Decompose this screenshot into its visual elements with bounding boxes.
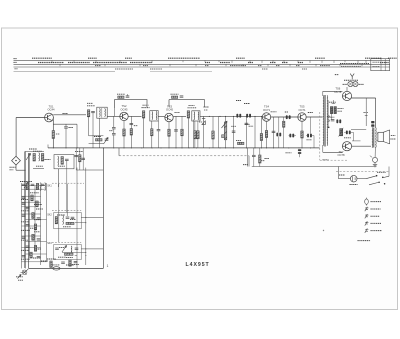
resistor R21 emitter [265,131,267,138]
wire to TS6 base [323,90,343,92]
dial lamp LA2 [353,81,358,86]
resistor R16 [181,129,183,136]
label bypass column [75,150,83,152]
capacitor ladder [22,215,26,216]
label above C16 [244,103,250,105]
capacitor C17 [252,155,256,156]
label R17 value b [204,109,208,111]
battery earth drop [338,167,340,179]
signal level 4.5mV [63,113,68,115]
wire down to output transformer [375,98,377,128]
switch rung wire [22,235,41,237]
IFT3 lead down [193,120,195,148]
resistor R18 load [212,131,214,139]
pot track wire [225,116,227,147]
capacitor box row3 b [75,248,79,249]
wire C3 down [65,128,67,148]
ladder label [33,257,41,259]
oscillator coil S3 [57,156,60,165]
wire osc coupling [53,123,77,125]
bottom row labels b [58,256,66,258]
wire vertical x58.8 [58,184,60,242]
resistor R23 bias [330,107,332,114]
aerial coil row1 [39,183,42,191]
legend row 3 symbol [365,214,369,218]
transistor TS5 OC71 [298,113,306,121]
ladder label [21,229,30,231]
capacitor C9 [112,134,116,135]
box row2 labels b [70,219,76,221]
capacitor bypass a [74,155,78,156]
capacitor C19 [272,131,276,132]
loudspeaker label row1 [391,134,396,136]
legend row 2 symbol [365,207,369,211]
wire vertical x46.5 [46,183,48,262]
resistor R27 bias [283,121,285,127]
wire C11 down [158,131,160,148]
wire TS1 collector to IFT1 [53,114,86,116]
capacitor ladder [37,218,41,219]
label C21 [285,111,289,113]
wire x247 below rail [246,148,248,167]
wire bracket left down [114,108,116,116]
resistor R13 [151,129,153,136]
electrolytic C25 [336,119,341,123]
resistor R12 [142,111,144,118]
battery dashed boundary [336,171,390,173]
IFT2 can outline [150,111,158,121]
resistor ladder [30,252,32,258]
driver transformer secondary [326,96,329,146]
wire diode down [203,125,205,148]
labels above IFT3 [188,107,197,109]
fuse label [53,264,60,266]
wire below C18 [299,154,301,157]
svg-text:OC78: OC78 [337,153,345,157]
capacitor box row3 [55,248,59,249]
wire to C3 [65,124,67,126]
wire C17 up [253,148,255,155]
resistor bottom a [50,261,52,267]
wire x213 down [212,116,214,147]
wire filter b [197,121,199,148]
supply feed bracket stage 2 [115,100,147,108]
label near padder [94,136,101,138]
stray speck [323,230,324,231]
on/off switch SK4 [366,176,376,179]
resistor row1 b [36,183,38,189]
label C23 [307,139,312,141]
output transformer secondary [374,128,377,148]
row1 labels b [30,192,39,194]
wire R12 down [143,118,145,148]
switch rung wire [22,195,41,197]
switch rung wire [26,253,47,255]
electrolytic C27 above output transformer [371,121,374,127]
resistor ladder [32,213,34,219]
loudspeaker frame [378,132,383,141]
electrolytic C16 coupling [246,114,251,118]
bottom row labels [47,258,56,260]
connector lead [21,268,29,272]
resistor R29 [238,142,244,144]
dial pointer mark [350,74,354,80]
wire vertical x77 [76,168,78,269]
wire box to main vertical [76,169,103,171]
resistor horizontal row3 [65,253,74,255]
wire x77 down [76,124,78,148]
resistor ladder [31,195,33,201]
wire antenna up [15,118,17,157]
wire C5 down [92,113,94,148]
output transformer core line 1 [372,128,374,148]
dial scale tick marks [52,60,366,66]
trimmer arrow row1 [24,182,29,188]
ladder label [30,227,36,229]
wire filter a [194,121,196,148]
output transformer core line 2 [373,128,375,148]
label bias [338,107,344,109]
resistor R14 feed [172,96,178,98]
trimmer arrow box row3 [62,246,67,253]
battery plate short [354,177,356,180]
padder arrow [104,138,109,145]
transistor TS3 OC45 [165,113,173,121]
capacitor ladder [26,246,30,247]
wire osc box down [58,169,60,187]
wire to C8 [113,116,115,127]
capacitor C10 [130,123,134,124]
IFT1 primary [98,109,101,117]
ladder label [36,208,43,210]
output transformer primary [371,128,374,148]
label above coil block [33,150,42,152]
capacitor ladder [26,225,30,226]
antenna label 2 [10,169,14,171]
labels above IFT2 b [143,104,149,106]
transistor TS1 OC44 [45,113,54,122]
wire TS3 to IFT3 [173,115,186,117]
label thermistor [344,137,351,139]
label P [261,160,265,162]
row1 labels [20,181,32,183]
connector label b [18,279,23,281]
wire TS6 collector right [351,97,375,99]
pot wiper arrow [222,121,228,128]
box row2 bottom label [63,226,71,228]
wire to TS1 base [16,117,44,119]
connector cross [23,270,27,274]
svg-text:SK3: SK3 [47,242,52,245]
electrolytic capacitor [286,115,291,119]
ladder label [21,221,29,223]
label R11 [134,125,138,127]
label C8 [109,130,113,132]
battery wire right [357,178,366,180]
svg-text:OC71: OC71 [298,108,306,112]
switch rung wire [22,213,41,215]
IFT1 lead down [98,118,100,148]
IFT1 secondary [104,109,107,117]
C7 stub [127,94,129,96]
wire TS1 emitter down [52,118,54,148]
wire row3 to bus a [81,248,103,250]
dial scale frequency figures [32,57,52,59]
capacitor C8 [112,128,116,129]
wire IFT2 to TS3 [158,115,165,117]
switch rung wire [22,185,45,187]
wire x255 down [254,116,256,147]
svg-text:1: 1 [107,264,109,268]
wire output transformer to jack [374,148,376,158]
driver transformer core line 1 [323,95,325,147]
driver transformer core line 2 [324,95,326,147]
wire cluster to TS7 [352,140,361,142]
wire vertical bus x24.8 [24,152,26,269]
labels above IFT1 b [87,102,93,104]
legend of adjustment symbols [365,199,369,204]
ladder label [21,199,28,201]
wire row3 link [75,254,77,256]
resistor R1 [33,154,35,162]
wire TS2 emitter down [123,121,125,148]
wire C4 to row2 box [66,169,68,213]
box row3 labels [59,247,66,249]
switch rung wire [22,188,45,190]
resistor horizontal row2 [66,222,74,224]
box text row 2 [373,66,380,68]
band label KW [15,68,18,70]
wire vertical x40.6 [40,186,42,265]
wire vertical x67.2 [66,184,68,216]
TS5 base bias branch [283,117,285,148]
ladder label [34,219,41,221]
jack to earth [374,162,376,164]
capacitor ladder [22,197,26,198]
thermistor R25 [340,129,343,136]
resistor ladder [34,224,36,230]
label left of battery [339,174,345,176]
electrolytic C26 [346,131,351,135]
label 5k [243,164,248,166]
rail left end tick [47,145,49,148]
wire R7 down [88,117,90,136]
wire feedback vertical [365,98,367,126]
capacitor C4 [65,159,69,160]
wire C23 down [313,136,315,148]
connector arrow [18,275,22,279]
svg-text:OC71: OC71 [263,108,271,112]
wire TS4 to TS5 [271,116,298,118]
resistor R15 emitter [168,129,170,136]
legend row 4 symbol [365,221,369,225]
label above lamps [344,79,358,81]
battery cell circle [350,175,357,182]
signal level 0.4mV TS4 [271,111,277,113]
dial strip right info box [371,59,390,71]
ladder label [21,210,29,212]
wire TS5 emitter down [301,121,303,148]
label 24 near pointer [335,74,339,76]
legend row 5 text [371,230,383,232]
svg-text:OC45: OC45 [166,108,174,112]
AGC feedback line [118,148,120,156]
electrolytic C23 [307,134,312,138]
jack contact [370,156,372,158]
capacitor bypass c [81,158,85,159]
legend row 2 text [371,208,381,210]
capacitor C6 [105,139,109,140]
resistor R6 [61,157,63,165]
wire vertical x25.5 [25,152,27,269]
capacitor C13 [174,130,178,131]
thermistor strike line [339,128,344,137]
wire x218 down [218,116,220,147]
resistor R22 emitter [301,131,303,138]
bottom row labels c [66,264,74,266]
box row3 bottom label [66,257,73,259]
wire detector line [200,115,262,117]
wire vertical x29.5 [29,153,31,256]
wire C20 down [278,136,280,148]
svg-text:OC44: OC44 [47,108,55,112]
switch label SK4 [377,171,386,173]
resistor R9 feed [118,96,124,98]
electrolytic below rail [298,149,301,154]
wire x261 down [260,116,262,147]
connector circle [22,270,27,275]
detector diode [202,116,205,124]
strip caption second row [341,65,361,67]
dial scale line 3 [14,66,391,68]
resistor R24 bias [334,107,336,114]
wire bypass a [75,148,77,170]
switch rung wire [22,201,41,203]
wire vertical x21.5 [21,183,23,268]
capacitor C12 feed [180,96,184,97]
transistor TS6 OC78 [342,91,351,100]
ladder label [21,258,30,260]
wire x310 down [310,117,312,134]
wire padder bottom [89,143,104,145]
resistor R8 [96,139,103,141]
svg-text:OC45: OC45 [120,107,128,111]
IFT3 primary [193,112,196,120]
labels above IFT2 [142,107,150,109]
wire bypass c [82,148,84,170]
switch dashed link row1 [52,182,84,184]
wire diamond down [15,165,17,170]
enclosure dashed vertical [319,112,321,160]
battery plate long [351,176,353,181]
wire C11 up [158,121,160,130]
antenna label [10,166,16,168]
label volume pot [231,125,236,127]
dial lamp LA1 [348,81,353,86]
lamp LA2 cross [354,82,358,86]
supply feed bracket stage 3 [169,100,205,107]
date code text [358,240,371,242]
ladder label [21,239,28,241]
switch wire up [388,167,390,177]
box text row 1 [373,61,380,63]
wire to TS7 base [323,151,343,153]
svg-text:OC78: OC78 [334,90,342,94]
secondary centre tap [327,116,331,118]
band label LW [14,58,18,60]
IFT2 lead down [151,121,153,148]
label above R14 [171,93,179,95]
capacitor ladder [37,239,41,240]
wire TS5 to driver transformer [306,116,322,118]
resistor ladder [34,245,36,251]
wire TS2 to IFT2 [128,115,141,117]
resistor bottom b [69,260,71,266]
wire R20 up [259,148,261,155]
wire TS3 branch [175,116,177,147]
capacitor C14 [232,131,236,132]
labels above IFT3 b [189,104,195,106]
lamp LA1 cross [349,82,353,86]
wire thermistor to feedback [351,129,366,131]
wire row2 to bus [81,216,103,218]
dashed top row2 [52,209,81,211]
capacitor C3 [64,127,68,128]
wire TS4 emitter down [266,121,268,148]
legend row 1 text [371,201,382,203]
label above antenna coils [29,148,37,150]
labels above IFT1 [87,105,95,107]
battery wire left [339,178,351,180]
resistor R20 [259,155,261,163]
capacitor in box row2 [66,217,70,218]
IFT3 can outline [192,111,200,121]
antenna socket centre dot [15,160,16,161]
resistor row1 a [26,183,28,189]
label R20 [265,158,270,160]
coil unit box row2 [54,212,81,228]
driver transformer primary [322,96,325,146]
svg-text:L4X95T: L4X95T [186,262,210,268]
bottom row labels d [72,264,79,266]
resistor R18b filter [197,131,199,139]
resistor R19 [260,134,262,141]
capacitor row1 c [41,184,45,185]
switch rung wire [26,241,47,243]
IFT1 can outline [97,107,107,118]
resistor R11 [130,129,132,135]
wire x246 down [245,116,247,147]
resistor R28 small [222,135,225,138]
loudspeaker cone [383,130,389,144]
resistor R7 [87,110,89,117]
capacitor bottom a [61,262,65,263]
capacitor ladder [22,256,26,257]
switch rung wire [22,247,41,249]
label R29 0.1 [236,139,241,141]
capacitor C28 [245,123,249,124]
wire TS6 base up to lamps [346,87,348,91]
wire C4 down [66,161,68,169]
dial scale line 2 [14,63,391,65]
IFT3 secondary [197,112,200,120]
capacitor in box row2 b [71,217,75,218]
wire R20 down [259,163,261,167]
ladder label [34,248,41,250]
enclosure dashed bottom [320,159,348,161]
resistor R10 emitter [123,129,125,136]
wire bypass b [79,148,81,170]
